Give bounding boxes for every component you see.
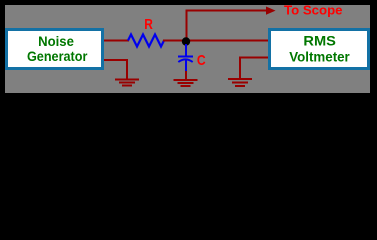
ground under noise generator (115, 79, 139, 87)
wire: node A to RMS voltmeter input (188, 40, 269, 42)
svg-text:Generator: Generator (27, 48, 88, 64)
wire: node A up to scope rail (186, 10, 188, 41)
wire: noise generator output to resistor R (104, 40, 129, 42)
svg-text:Noise: Noise (38, 33, 74, 49)
svg-text:Voltmeter: Voltmeter (289, 48, 350, 64)
label To Scope (284, 3, 343, 18)
wire: capacitor C to ground (185, 71, 187, 79)
svg-text:R: R (144, 16, 153, 33)
ground under capacitor C (174, 79, 198, 87)
wire: RMS voltmeter to ground (239, 57, 269, 79)
label R (144, 16, 153, 33)
resistor R (128, 35, 164, 47)
arrowhead to scope (266, 7, 276, 15)
wire: scope rail horizontal (186, 10, 267, 12)
wire: resistor R to node A (163, 40, 183, 42)
svg-text:RMS: RMS (303, 33, 336, 49)
block: Noise Generator (5, 28, 104, 70)
block: RMS Voltmeter (268, 28, 370, 70)
capacitor C (178, 44, 193, 71)
ground under RMS voltmeter (228, 78, 252, 87)
junction node A (182, 37, 190, 45)
label C (197, 52, 206, 69)
svg-text:To Scope: To Scope (284, 3, 343, 18)
wire: noise generator to ground (104, 59, 128, 79)
svg-text:C: C (197, 52, 206, 69)
